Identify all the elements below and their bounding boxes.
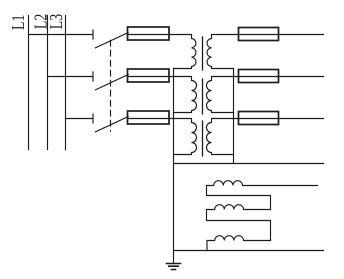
svg-text:L1: L1 (8, 15, 28, 30)
svg-text:L3: L3 (46, 14, 66, 29)
